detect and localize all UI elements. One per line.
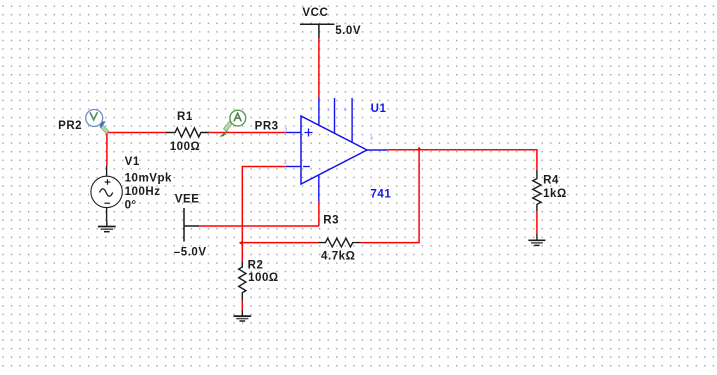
svg-text:VEE: VEE — [175, 194, 200, 206]
wire node A to R1 — [106, 132, 165, 134]
svg-text:PR2: PR2 — [58, 120, 82, 132]
svg-text:VCC: VCC — [302, 7, 328, 19]
wire output — [388, 150, 537, 170]
ground (V1) — [98, 220, 116, 232]
svg-text:5.0V: 5.0V — [335, 25, 361, 37]
power VCC — [300, 7, 361, 39]
wire VEE to op-amp pin4 — [199, 225, 319, 227]
svg-text:R1: R1 — [177, 111, 193, 123]
power VEE — [174, 194, 207, 259]
wire pin2 to feedback node — [242, 167, 285, 262]
svg-text:R2: R2 — [248, 259, 264, 271]
resistor R1 — [166, 111, 210, 153]
svg-text:741: 741 — [370, 188, 391, 200]
svg-text:R3: R3 — [323, 215, 339, 227]
svg-text:V1: V1 — [125, 156, 140, 168]
svg-text:3: 3 — [285, 126, 288, 131]
ground (R2) — [233, 311, 251, 322]
source V1 — [91, 156, 172, 220]
op-amp pin 6 stub — [367, 149, 388, 151]
op-amp pin 4 stub — [318, 175, 320, 202]
svg-text:4: 4 — [310, 200, 313, 205]
wire R1 to op-amp pin3 — [209, 132, 286, 134]
op-amp pin 7 stub — [318, 98, 320, 126]
svg-text:10mVpk: 10mVpk — [125, 172, 172, 184]
wire R4 to ground — [536, 211, 538, 234]
svg-text:5: 5 — [344, 107, 347, 112]
svg-text:1: 1 — [327, 107, 330, 112]
op-amp pin 2 stub — [286, 166, 301, 168]
svg-text:100Ω: 100Ω — [248, 272, 279, 284]
svg-text:U1: U1 — [371, 103, 387, 115]
op-amp pin 5 stub — [351, 98, 353, 142]
svg-text:100Hz: 100Hz — [125, 186, 161, 198]
node junction output — [417, 147, 422, 151]
svg-text:4.7kΩ: 4.7kΩ — [321, 251, 355, 263]
wire V1 to node A — [106, 133, 108, 167]
op-amp U1 — [301, 103, 391, 201]
svg-text:–5.0V: –5.0V — [174, 247, 207, 259]
op-amp pin 3 stub — [286, 132, 301, 134]
wire op-amp pin4 down — [318, 201, 320, 226]
op-amp pin 1 stub — [334, 98, 336, 133]
svg-text:1kΩ: 1kΩ — [543, 188, 567, 200]
svg-text:100Ω: 100Ω — [170, 141, 201, 153]
svg-text:R4: R4 — [543, 175, 559, 187]
probe PR3 — [219, 110, 278, 137]
svg-text:7: 7 — [310, 107, 313, 112]
node junction feedback left — [239, 241, 243, 246]
wire R2 to ground — [241, 301, 243, 311]
wire R3 to output node — [361, 150, 420, 243]
svg-text:6: 6 — [371, 136, 374, 141]
svg-text:0°: 0° — [125, 199, 137, 211]
resistor R4 — [533, 170, 567, 211]
resistor R2 — [239, 259, 279, 300]
probe PR2 — [58, 110, 109, 134]
wire node to R3 — [242, 242, 318, 244]
wire VCC to op-amp pin7 — [318, 38, 320, 97]
ground (R4) — [528, 234, 545, 245]
svg-text:2: 2 — [284, 160, 287, 165]
svg-text:PR3: PR3 — [255, 120, 279, 132]
resistor R3 — [319, 215, 361, 263]
